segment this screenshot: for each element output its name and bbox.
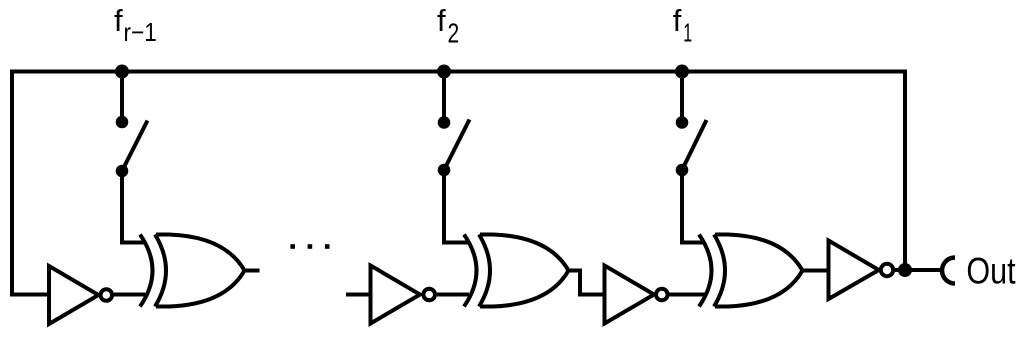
wire tap 1 down to switch [120,72,124,123]
svg-text:f: f [114,3,123,38]
node junction output/feedback [898,263,912,277]
xor gate X1 [140,235,245,307]
wire U3 bubble to XOR3 lower input [670,293,705,297]
switch S2 (open) [438,116,470,176]
wire top feedback bus [12,70,905,74]
wire tap 2 down to switch [442,72,446,123]
wire tap 3 down to switch [680,72,684,123]
wire switch S2 to XOR2 upper input [444,170,468,243]
switch S1 (open) [116,116,148,178]
svg-text:1: 1 [683,17,692,47]
svg-text:Out: Out [966,251,1016,292]
svg-text:2: 2 [448,19,460,50]
wire X1 output stub [245,269,260,273]
svg-text:r−1: r−1 [124,18,157,47]
label f_1 [673,3,692,48]
wire left vertical feedback [12,70,49,295]
wire right vertical feedback [903,70,907,271]
wire X3 output to buffer [803,269,829,273]
node junction bus/tap 1 [115,65,129,79]
xor gate X3 [699,235,803,307]
ellipsis continuation dots [290,244,329,249]
label f_2 [437,3,459,49]
output terminal (half-circle connector) [942,258,955,284]
node junction bus/tap 2 [437,65,451,79]
switch S3 (open) [676,116,707,176]
node junction bus/tap 3 [675,65,689,79]
wire switch S1 to XOR1 upper input [122,171,144,243]
svg-text:f: f [673,3,682,38]
inverter U1 [49,266,112,324]
svg-text:f: f [437,3,446,38]
inverter U2 [371,266,436,324]
inverter U3 [605,266,668,324]
xor gate X2 [464,235,569,307]
wire U2 bubble to XOR2 lower input [437,293,469,297]
wire stage-2 input stub [346,293,371,297]
wire U4 bubble to output node [895,268,940,272]
label Out [966,251,1016,292]
wire U1 bubble to XOR1 lower input [114,293,145,297]
wire X2 output jog to U3 [569,271,605,295]
label f_r-1 [114,3,157,47]
wire switch S3 to XOR3 upper input [682,170,703,243]
inverter U4 (output buffer) [829,241,894,300]
